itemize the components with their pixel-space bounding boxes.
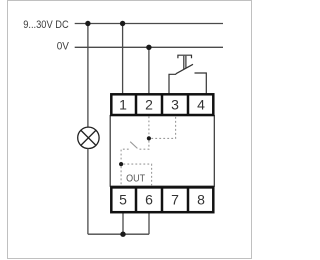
svg-text:8: 8 bbox=[197, 192, 205, 208]
node rail1 T1 bbox=[120, 21, 125, 26]
lamp E1 bbox=[78, 127, 99, 148]
relay body outline bbox=[110, 116, 214, 187]
svg-text:OUT: OUT bbox=[126, 174, 146, 185]
svg-text:6: 6 bbox=[145, 192, 153, 208]
push button S1 bbox=[169, 55, 206, 93]
wire T5 stub bbox=[122, 213, 124, 235]
internal dashed contact stem bbox=[138, 141, 149, 149]
svg-text:2: 2 bbox=[145, 97, 153, 113]
internal dashed to T5 bbox=[120, 166, 122, 186]
node contact upper bbox=[147, 136, 151, 140]
svg-text:0V: 0V bbox=[57, 41, 70, 53]
frame border bbox=[8, 1, 252, 259]
internal dashed to T3 bbox=[151, 117, 175, 139]
internal dashed to T6 bbox=[123, 164, 151, 186]
wire rail +V bbox=[75, 23, 223, 25]
internal dashed T2 drop bbox=[121, 117, 176, 187]
wire lamp drop bbox=[87, 24, 89, 128]
svg-text:5: 5 bbox=[119, 192, 127, 208]
node bottom junction bbox=[120, 232, 125, 237]
svg-text:3: 3 bbox=[171, 97, 179, 113]
node rail2 T2 bbox=[146, 45, 151, 50]
svg-text:1: 1 bbox=[119, 97, 127, 113]
relay blade bbox=[130, 142, 137, 149]
node rail1 lamp bbox=[85, 21, 90, 26]
wire rail 0V bbox=[75, 46, 223, 48]
wire lamp to bottom bbox=[87, 149, 89, 235]
terminal row bottom bbox=[111, 187, 213, 212]
wire to terminal 1 bbox=[122, 24, 124, 95]
svg-text:4: 4 bbox=[197, 97, 205, 113]
svg-text:9...30V DC: 9...30V DC bbox=[23, 19, 69, 31]
wire to terminal 2 bbox=[148, 47, 150, 94]
svg-text:7: 7 bbox=[171, 192, 179, 208]
wire T6 stub bbox=[148, 213, 150, 235]
internal dashed left lead bbox=[121, 149, 129, 162]
wire bottom bus bbox=[88, 233, 149, 235]
terminal row top bbox=[111, 94, 213, 115]
node contact lower bbox=[119, 162, 123, 166]
